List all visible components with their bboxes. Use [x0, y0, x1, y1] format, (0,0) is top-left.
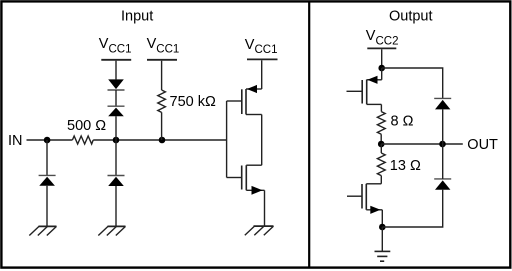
junction dot VCC2 node — [378, 65, 385, 72]
V_CC2 rail — [367, 47, 396, 49]
wire: node A down to diode D4 — [115, 140, 117, 176]
svg-text:VCC1: VCC1 — [99, 36, 132, 55]
svg-text:OUT: OUT — [467, 137, 498, 153]
wire: bottom rail to diode D6 — [382, 190, 442, 227]
wire: resistor 8 ohm to OUT node — [380, 134, 382, 144]
wire: ground node down to earth ground — [381, 227, 383, 251]
resistor 500 ohm (series input) — [72, 136, 93, 144]
svg-text:Output: Output — [389, 8, 433, 24]
transistor Q2 (input NMOS) — [227, 165, 265, 195]
svg-text:13 Ω: 13 Ω — [390, 158, 421, 174]
wire: Q3 drain to resistor 8 ohm — [380, 104, 382, 111]
transistor Q3 (output PMOS) — [347, 68, 382, 104]
wire: IN to resistor R500 — [27, 139, 73, 141]
resistor 13 Ohm — [377, 153, 385, 176]
wire: resistor 13 ohm to Q4 drain — [380, 176, 382, 184]
diode D5 (OUT clamp to VCC2, cathode up) — [434, 98, 451, 109]
junction dot OUT right — [439, 141, 446, 148]
wire: OUT node down to resistor 13 ohm — [380, 144, 382, 153]
wire: Q2 source down to ground — [264, 190, 266, 226]
wire: D1 anode down to ground — [46, 186, 48, 227]
wire: rail 2 down to resistor 750k — [161, 61, 163, 90]
svg-text:Input: Input — [121, 8, 153, 24]
svg-text:750 kΩ: 750 kΩ — [170, 94, 216, 110]
junction dot node A — [113, 137, 120, 144]
ground (earth) output stage — [375, 251, 391, 261]
svg-text:VCC1: VCC1 — [147, 36, 180, 55]
resistor 750 kOhm — [158, 90, 166, 112]
ground (chassis) under D1 — [29, 226, 56, 235]
V_CC1 rail 3 — [247, 58, 278, 60]
wire: D2 to D3 — [115, 90, 117, 106]
svg-text:8 Ω: 8 Ω — [391, 113, 414, 129]
wire: OUT node line — [381, 143, 463, 145]
junction dot at IN node — [44, 137, 51, 144]
svg-text:VCC1: VCC1 — [245, 37, 278, 56]
wire: D3 down to node A — [115, 116, 117, 140]
V_CC1 rail 2 — [147, 59, 177, 61]
wire: IN node down to diode D1 — [46, 140, 48, 175]
transistor Q1 (input PMOS) — [227, 85, 262, 115]
wire: D5 anode down to OUT node — [442, 109, 444, 144]
wire: resistor R500 to gate line — [93, 139, 226, 141]
junction dot node B (750k tap) — [159, 137, 166, 144]
wire: VCC2 node to diode D5 branch — [382, 68, 443, 98]
junction dot OUT left — [378, 141, 385, 148]
svg-text:VCC2: VCC2 — [366, 28, 399, 47]
V_CC1 rail 1 — [101, 59, 131, 61]
diode D1 (IN clamp to ground, cathode up) — [39, 175, 56, 185]
wire: OUT node down to D6 cathode — [442, 144, 444, 179]
wire: resistor 750k down to node B — [161, 112, 163, 140]
wire: Q4 source down to ground node — [381, 210, 383, 227]
ground (chassis) under Q2 — [245, 226, 274, 235]
wire: Q1 drain to Q2 drain — [261, 115, 263, 166]
wire: VCC2 rail down to node — [381, 49, 383, 68]
diode D6 (ground rail to OUT, cathode up) — [434, 179, 451, 190]
wire: D4 anode down to ground — [115, 186, 117, 226]
wire: rail 3 down to Q1 source — [261, 60, 263, 89]
svg-text:500 Ω: 500 Ω — [67, 118, 106, 134]
svg-text:IN: IN — [8, 133, 23, 149]
diode D2 (cathode down) — [108, 79, 125, 90]
diode D4 (node A clamp to ground, cathode up) — [108, 176, 125, 187]
common gate line — [226, 101, 228, 178]
junction dot ground node — [379, 224, 386, 231]
resistor 8 Ohm — [377, 112, 385, 135]
transistor Q4 (output NMOS) — [347, 184, 382, 214]
ground (chassis) under D4 — [98, 226, 125, 235]
wire: rail 1 down to diode D2 — [115, 61, 117, 80]
divider between Input and Output sections — [308, 2, 310, 268]
diode D3 (cathode up) — [108, 106, 125, 116]
